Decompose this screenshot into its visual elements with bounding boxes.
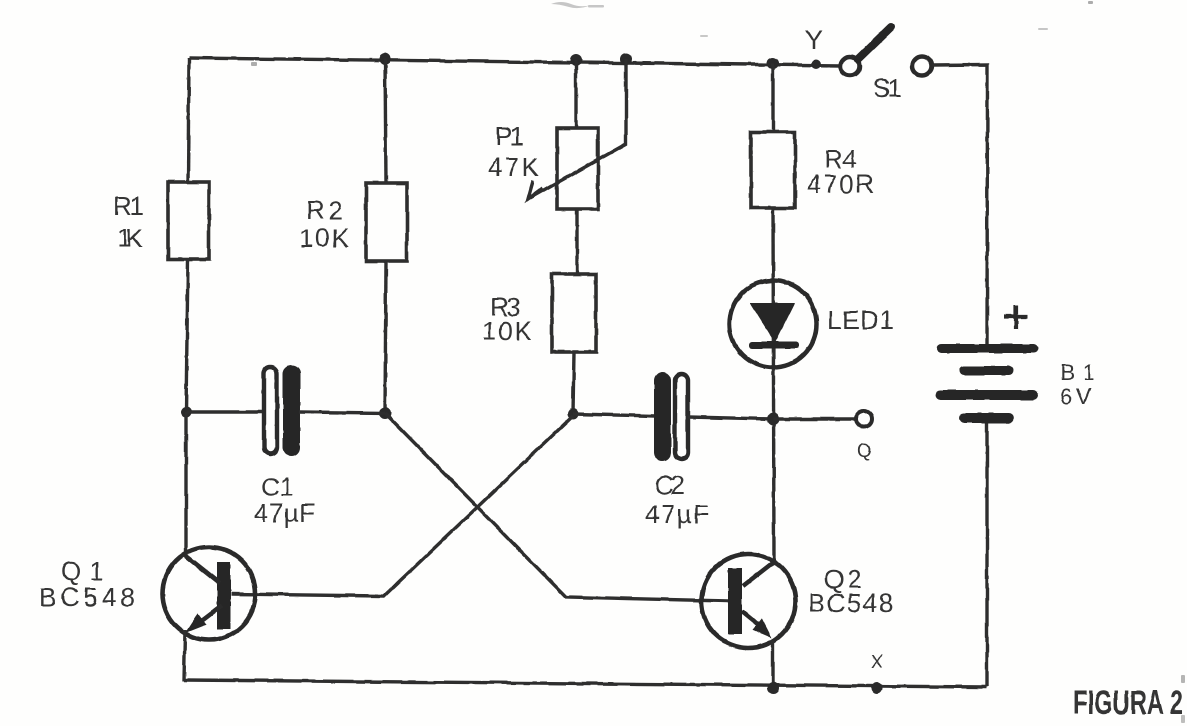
wire R1 to C1 node — [186, 259, 188, 412]
svg-text:LED1: LED1 — [827, 305, 894, 335]
svg-text:Y: Y — [805, 25, 823, 55]
svg-text:BC548: BC548 — [39, 582, 135, 612]
junction top rail / P1 — [570, 54, 582, 66]
wire R4 to LED anode / down to Q2 collector — [773, 208, 774, 562]
svg-text:R1: R1 — [113, 191, 144, 221]
wire P1 drop — [574, 60, 577, 128]
svg-text:47µF: 47µF — [645, 499, 709, 529]
resistor R4 — [751, 132, 874, 208]
svg-text:C2: C2 — [655, 470, 685, 500]
svg-text:X: X — [871, 652, 883, 672]
node X — [871, 652, 883, 694]
resistor R1 — [113, 182, 209, 259]
svg-text:FIGURA 2: FIGURA 2 — [1073, 684, 1183, 722]
node Q output junction — [767, 413, 779, 425]
svg-text:47K: 47K — [488, 152, 540, 182]
wire P1 to R3 — [575, 209, 578, 274]
wire cross-coupling C1node to Q2 base — [385, 413, 728, 601]
wire Q1 emitter to bottom rail — [184, 630, 185, 681]
wire R2 to C1 node — [385, 261, 386, 413]
switch S1 — [841, 27, 932, 103]
junction top rail / P1 wiper — [620, 53, 632, 65]
junction top rail / R2 — [379, 53, 391, 65]
node C2-left junction — [568, 409, 579, 420]
node Y — [805, 25, 823, 69]
wire S1 to right rail — [932, 65, 988, 344]
wire down to Q1 collector — [184, 412, 187, 557]
svg-text:47µF: 47µF — [254, 498, 315, 528]
resistor R2 — [299, 183, 407, 261]
svg-text:P1: P1 — [495, 121, 524, 151]
svg-text:10K: 10K — [482, 316, 533, 346]
svg-text:Q: Q — [857, 441, 872, 462]
LED LED1 — [730, 281, 895, 368]
wire R3 to C2 node — [573, 352, 574, 414]
wire to Q terminal — [773, 417, 856, 420]
wire R2 drop — [385, 59, 386, 183]
wire battery minus to bottom rail — [985, 423, 988, 687]
node C1-right junction — [379, 407, 391, 419]
transistor Q2 — [702, 554, 894, 648]
junction top rail / R4 — [767, 57, 779, 69]
capacitor C2 — [573, 372, 773, 529]
wire top rail — [189, 58, 841, 66]
svg-text:6V: 6V — [1060, 384, 1091, 409]
svg-text:470R: 470R — [807, 169, 874, 199]
wire bottom rail — [184, 680, 986, 687]
svg-text:R2: R2 — [306, 195, 343, 225]
junction bottom rail / Q2 emitter — [767, 682, 779, 694]
wire R4 drop — [771, 63, 774, 132]
terminal Q — [856, 411, 872, 462]
capacitor C1 — [186, 365, 385, 528]
potentiometer P1 — [488, 59, 626, 209]
svg-text:1K: 1K — [117, 223, 144, 253]
battery B1 — [935, 305, 1095, 423]
transistor Q1 — [39, 547, 256, 640]
resistor R3 — [482, 274, 596, 352]
wire left rail upper — [188, 58, 189, 183]
wire cross-coupling C2node to Q1 base — [231, 416, 573, 596]
svg-text:10K: 10K — [299, 223, 350, 253]
node C1-left junction — [181, 407, 192, 418]
svg-text:BC548: BC548 — [808, 588, 893, 618]
wire Q2 emitter to bottom rail — [771, 640, 774, 688]
svg-text:S1: S1 — [873, 73, 902, 103]
